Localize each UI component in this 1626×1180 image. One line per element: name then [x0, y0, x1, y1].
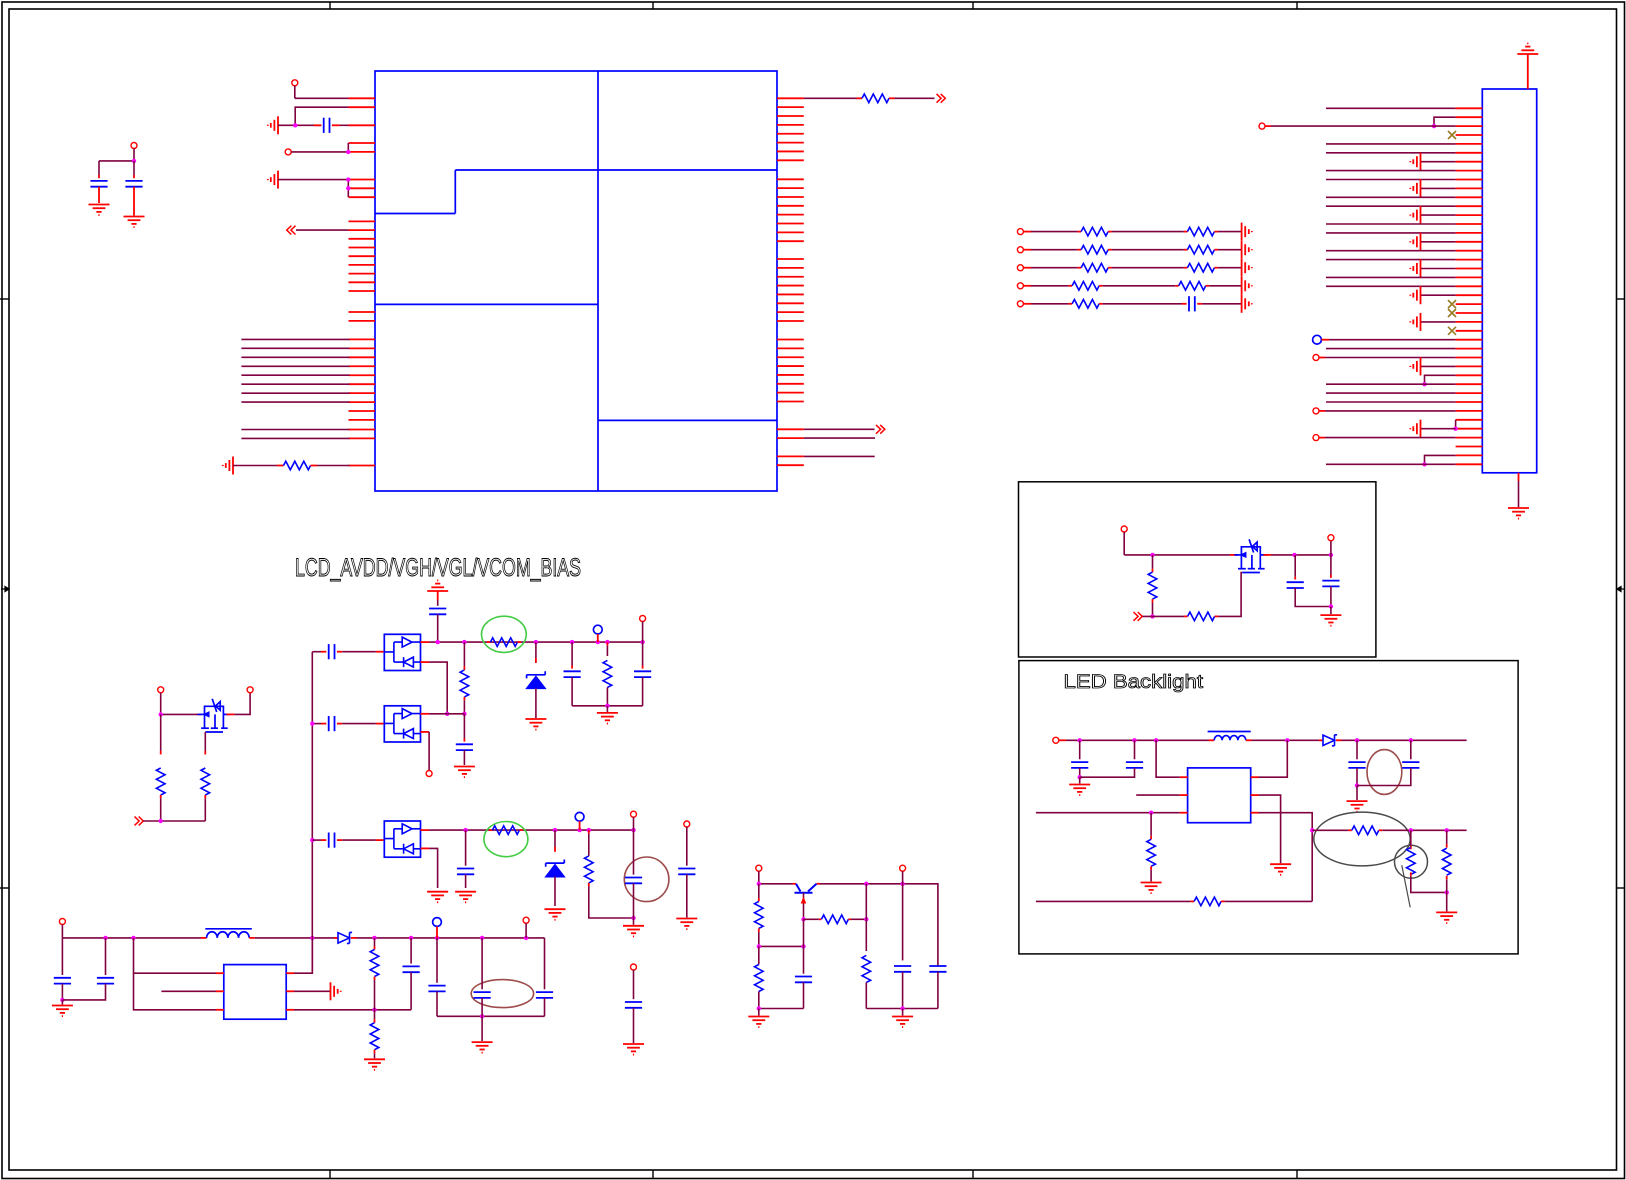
capacitor C7	[642, 642, 644, 665]
terminal J1 row 3	[1259, 123, 1265, 129]
ground J1 row 25	[1421, 321, 1456, 323]
resistor R20	[1410, 830, 1412, 846]
capacitor C1	[278, 124, 321, 126]
transistor Q1 P-MOSFET	[161, 713, 198, 715]
terminal P8	[234, 693, 250, 715]
transistor Q3 P-MOSFET	[1234, 539, 1267, 572]
svg-text:LED Backlight: LED Backlight	[1064, 671, 1204, 693]
wire VCOM rail	[759, 883, 793, 885]
wire rail mid2	[1246, 739, 1252, 741]
capacitor C22	[902, 884, 904, 961]
capacitor C8	[312, 723, 321, 725]
wire IN1	[296, 229, 349, 231]
wire Q3 gate	[1241, 573, 1242, 591]
wire Q1 gate	[204, 732, 206, 751]
resistor R3	[487, 641, 491, 643]
terminal J1 row 29	[1313, 355, 1319, 361]
port chevron IN1	[287, 226, 296, 235]
ground GR1	[1242, 223, 1252, 241]
wire J1 row 11	[1326, 196, 1456, 198]
ground G24	[1330, 607, 1332, 615]
terminal row5	[1017, 301, 1023, 307]
ground J1 row 37	[1421, 428, 1456, 430]
terminal P20	[900, 865, 906, 871]
resistor R22 return	[1036, 900, 1191, 902]
wire J1 row 17	[1326, 250, 1456, 252]
port chevron OUT1	[937, 94, 946, 103]
gray ellipse A4	[1314, 812, 1410, 866]
wire U3 vin pin	[1156, 740, 1180, 777]
capacitor C17	[465, 830, 467, 866]
ground G29	[1446, 892, 1448, 911]
ground G4	[89, 205, 110, 216]
terminal P1	[292, 80, 298, 86]
wire U2 pin2	[161, 990, 216, 992]
wire P1 to U1 pin1	[295, 97, 349, 99]
resistor R21	[1446, 830, 1448, 844]
ground J1 row 13	[1421, 214, 1456, 216]
box outline LED backlight	[1019, 661, 1518, 954]
resistor R10	[489, 829, 493, 831]
dual diode D3	[384, 706, 420, 742]
terminal P16	[756, 865, 762, 871]
no-connect X row 24	[1448, 309, 1456, 317]
zener D2	[535, 642, 537, 658]
wire J1 row 41	[1326, 463, 1456, 465]
ground GR3	[1242, 259, 1252, 277]
resistor R8	[374, 938, 376, 946]
ground G22	[758, 1009, 760, 1016]
wire P2 to U1	[291, 151, 348, 153]
terminal P14	[684, 821, 690, 827]
wire U1 out2	[804, 428, 875, 430]
wire right bottom rail	[866, 1008, 938, 1010]
wire emitter drop	[865, 884, 867, 920]
capacitor C15	[544, 938, 546, 989]
ground G3	[223, 457, 233, 475]
wire U2 fb pin	[286, 1009, 294, 1011]
ground G5	[124, 217, 145, 228]
capacitor C13	[436, 938, 438, 983]
ground GR2	[1242, 241, 1252, 259]
ground G20	[676, 919, 697, 930]
dual diode D1	[384, 634, 420, 670]
callout leader	[1402, 865, 1410, 907]
ground G14	[364, 1059, 385, 1070]
resistor R13	[804, 918, 819, 920]
terminal J1 row 35	[1313, 408, 1319, 414]
ground J1 row 16	[1421, 241, 1456, 243]
capacitor CB5	[1103, 303, 1182, 305]
capacitor C26	[1079, 740, 1081, 759]
ground G13	[331, 982, 341, 1000]
dark red ellipse A3	[1367, 750, 1402, 795]
wire box1 rail	[1124, 554, 1230, 556]
terminal blue P4	[593, 625, 602, 634]
terminal P18	[1330, 541, 1332, 555]
terminal blue P10	[433, 918, 442, 927]
wire J1 row 21	[1326, 285, 1456, 287]
ground G19	[633, 918, 635, 925]
terminal P7	[158, 687, 164, 693]
capacitor C10	[61, 938, 63, 975]
resistor RB4	[1103, 285, 1176, 287]
dark red circle A2	[624, 857, 669, 902]
wire U3 pin2	[1136, 794, 1180, 796]
resistor RA2	[1031, 249, 1078, 251]
capacitor C2	[98, 161, 100, 175]
dual diode D5	[384, 821, 420, 857]
U1 left pins	[349, 98, 376, 465]
J1 pins	[1456, 108, 1483, 464]
ground G26	[1141, 883, 1162, 894]
wire U1 pin2	[295, 107, 348, 125]
wire J1 row 5	[1326, 143, 1456, 145]
terminal P17	[1121, 526, 1127, 532]
wire J1 row 33	[1326, 392, 1456, 394]
capacitor C29	[1410, 740, 1412, 759]
terminal P2	[285, 149, 291, 155]
terminal blue row 27	[1313, 335, 1322, 344]
ground GR4	[1242, 277, 1252, 295]
wire bus U1 left	[241, 339, 349, 438]
wire J1 row 8	[1326, 170, 1456, 172]
ground G16	[427, 892, 448, 903]
terminal P15	[631, 964, 637, 970]
ground J1 row 30	[1421, 365, 1456, 367]
wire boost output rail	[357, 937, 545, 939]
capacitor C19	[678, 869, 695, 875]
wire J1 row 31	[1425, 375, 1456, 384]
resistor R2	[804, 97, 861, 99]
ground G12	[61, 1000, 63, 1005]
terminal P5	[640, 616, 646, 622]
diode D4	[334, 937, 338, 939]
terminal P9	[59, 919, 65, 925]
no-connect X row 26	[1448, 327, 1456, 335]
resistor RB3	[1112, 267, 1184, 269]
wire boost bottom rail	[437, 1015, 545, 1017]
wire VGL node	[421, 829, 430, 831]
inductor L1	[207, 932, 250, 938]
wire J1 row 20	[1326, 276, 1456, 278]
capacitor C18	[633, 830, 635, 875]
capacitor C12	[410, 938, 412, 964]
ground G28	[1356, 786, 1358, 801]
resistor R9	[374, 1010, 376, 1019]
ground J1 row 7	[1421, 161, 1456, 163]
wire U2 gnd pin	[286, 990, 294, 992]
capacitor C16	[312, 839, 321, 841]
capacitor C21	[803, 946, 805, 973]
capacitor C24	[1294, 555, 1296, 577]
terminal J1 row 38	[1313, 435, 1319, 441]
resistor RA5	[1031, 303, 1069, 305]
wire J1 row 28	[1326, 348, 1456, 350]
ground G9	[525, 719, 546, 730]
resistor R15	[865, 919, 867, 951]
capacitor C28	[1356, 740, 1358, 759]
wire VGH node	[421, 713, 430, 715]
wire U3 gnd pin	[1251, 794, 1259, 796]
wire J1 row 15	[1326, 232, 1456, 234]
gray circle A5	[1395, 845, 1428, 878]
inductor L2	[1214, 736, 1246, 741]
zener D6	[554, 830, 556, 847]
ground G21	[623, 1044, 644, 1055]
wire left bottom rail	[759, 1008, 804, 1010]
connector J1 body	[1482, 89, 1536, 473]
resistor R19 sense	[1312, 829, 1348, 831]
capacitor C20	[625, 1002, 642, 1008]
capacitor C5	[312, 651, 321, 653]
capacitor C11	[105, 938, 107, 975]
terminal P19	[1053, 737, 1059, 743]
wire J1 row 14	[1326, 223, 1456, 225]
ground G25	[1079, 777, 1081, 783]
ground G18	[545, 909, 566, 920]
wire J1 row 18	[1326, 259, 1456, 261]
terminal row1	[1017, 229, 1023, 235]
capacitor C14	[481, 938, 483, 989]
resistor R18	[1150, 813, 1152, 836]
U1 right pins	[777, 98, 804, 465]
resistor RA3	[1031, 267, 1078, 269]
ground J1 row 22	[1421, 294, 1456, 296]
resistor R1	[233, 465, 277, 467]
wire LED output rail	[1342, 739, 1467, 741]
box outline VGH switch	[1019, 482, 1376, 657]
wire G2 to U1 pins	[278, 179, 348, 181]
resistor R16	[1152, 555, 1154, 569]
terminal P11	[523, 917, 529, 923]
ground J1 row 19	[1421, 268, 1456, 270]
resistor RB1	[1112, 231, 1184, 233]
ground G17	[455, 892, 476, 903]
ground G1	[268, 116, 278, 134]
boost IC U2	[224, 965, 286, 1020]
wire J1 row 6	[1326, 152, 1456, 154]
ground J1 row 10	[1421, 187, 1456, 189]
wire gate bottom rail	[143, 820, 205, 822]
resistor R4	[463, 642, 465, 666]
wire J1 row 40	[1425, 455, 1456, 464]
diode D7	[1319, 739, 1323, 741]
no-connect X row 23	[1448, 300, 1456, 308]
wire node A	[99, 160, 134, 162]
wire rail mid	[249, 937, 255, 939]
capacitor C9	[463, 714, 465, 739]
capacitor C4	[437, 591, 439, 600]
port chevron IN2	[135, 817, 144, 826]
ground G23	[902, 1009, 904, 1016]
no-connect X row 4	[1448, 131, 1456, 139]
wire base node	[759, 945, 804, 947]
wire D3 lower out to P6	[421, 731, 430, 733]
resistor RB2	[1112, 249, 1184, 251]
ground G8 top	[427, 580, 448, 591]
wire U3 fb pin	[1251, 812, 1259, 814]
capacitor C6	[571, 642, 573, 665]
resistor R17	[1143, 615, 1185, 617]
wire U2 pin3	[134, 973, 217, 1010]
capacitor C25	[1330, 555, 1332, 575]
wire J1 row 1	[1326, 107, 1456, 109]
wire J1 row 32	[1326, 383, 1456, 385]
resistor R12	[758, 884, 760, 898]
port chevron EN	[1134, 612, 1143, 621]
ground G27	[1270, 864, 1291, 875]
wire J1 row 34	[1326, 401, 1456, 403]
wire D1 lower out	[421, 661, 430, 663]
resistor R14	[758, 946, 760, 964]
capacitor C23	[929, 966, 946, 972]
wire LED input rail	[1066, 739, 1209, 741]
resistor RA4	[1031, 285, 1069, 287]
wire U3 sw pin	[1251, 776, 1259, 778]
wire J1 row 36	[1455, 420, 1457, 429]
green highlight ellipse E2	[484, 822, 528, 857]
wire U3 en pin	[1036, 812, 1180, 814]
LED driver IC U3	[1188, 768, 1251, 823]
node AVDD wire	[421, 641, 430, 643]
resistor R5	[606, 642, 608, 646]
ground GR5	[1242, 295, 1252, 313]
wire J1 row 2	[1434, 117, 1456, 126]
ground G15	[481, 1016, 483, 1041]
capacitor C3	[133, 161, 135, 175]
wire D5 lower out	[421, 847, 430, 849]
ground G10	[606, 706, 608, 713]
wire J1 row 12	[1326, 205, 1456, 207]
ground G2	[268, 171, 278, 189]
wire boost input rail	[62, 937, 201, 939]
vertical feed rail	[311, 652, 313, 974]
terminal row4	[1017, 283, 1023, 289]
dark red ellipse A1	[471, 980, 533, 1008]
LCD driver IC U1 body	[375, 71, 777, 491]
transistor Q2	[795, 884, 817, 893]
wire U2 vin pin	[134, 938, 217, 973]
ground G11	[454, 767, 475, 778]
terminal row3	[1017, 265, 1023, 271]
wire J1 row 9	[1326, 179, 1456, 181]
terminal P6	[426, 771, 432, 777]
svg-text:LCD_AVDD/VGH/VGL/VCOM_BIAS: LCD_AVDD/VGH/VGL/VCOM_BIAS	[295, 554, 581, 582]
wire U2 sw pin	[286, 972, 294, 974]
resistor R7	[160, 714, 162, 751]
resistor R6	[201, 768, 210, 795]
terminal P3	[131, 143, 137, 149]
terminal P13	[631, 811, 637, 817]
port chevron OUT2	[876, 425, 885, 434]
terminal row2	[1017, 247, 1023, 253]
wire AVDD bottom	[572, 705, 643, 707]
capacitor C27	[1134, 740, 1136, 759]
wire U1 out4	[804, 455, 875, 457]
resistor R11	[588, 830, 590, 834]
ground G6 top	[1517, 43, 1538, 54]
green highlight ellipse E1	[482, 616, 527, 652]
resistor RA1	[1031, 231, 1078, 233]
wire U1 out3	[804, 437, 875, 439]
ground G7 bottom	[1518, 473, 1520, 481]
terminal blue P12	[575, 812, 584, 821]
